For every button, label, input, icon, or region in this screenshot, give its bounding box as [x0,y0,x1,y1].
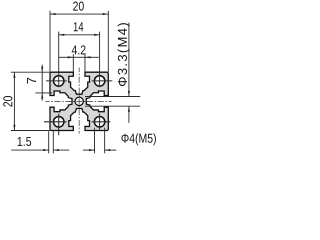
corner hole bottom-left [53,117,64,128]
crosshair bottom-left hole horizontal [44,121,67,123]
corner hole top-left [53,76,64,87]
dim 4.2 extension line right [84,54,86,72]
dim 4.2 dimension line [73,56,85,58]
corner hole top-right [94,76,105,87]
dim 20 top dimension line [50,13,108,15]
dim 20 left extension line bottom [11,130,50,132]
dim 1.5 extension line left [48,131,50,153]
dim 1.5 label [18,137,32,146]
dim 7 label [27,78,36,84]
dim 7 dimension line [41,65,43,101]
dim 14 label [74,22,84,31]
dim 14 extension/crosshair left [58,32,60,88]
dim 20 left dimension line [13,72,15,130]
dim 4.2 left outside arrow [59,56,74,58]
crosshair bottom-left hole vertical [58,114,60,136]
dim 20 left extension line top [11,71,50,73]
dim 20 left label [3,96,12,107]
profile body 20x20 extrusion cross-section [50,72,108,130]
dim Phi4(M5) extension line right [104,128,106,154]
dim 7 extension line [35,92,52,94]
crosshair top-left hole [46,80,67,82]
crosshair bottom-right hole horizontal [92,121,111,123]
dim Phi3.3(M4) dimension line with outside arrows [128,23,130,97]
dim 4.2 right outside arrow [85,56,99,58]
dim 14 dimension line [59,34,100,36]
dim Phi3.3(M4) extension line bottom [85,105,140,107]
vertical centerline [78,67,80,133]
dim Phi4(M5) label [121,133,155,145]
dim 20 top label [73,2,84,11]
horizontal centerline [45,100,111,102]
dim 4.2 extension line left [72,54,74,72]
dim Phi4(M5) dimension line with outside arrows [83,149,95,151]
corner hole bottom-right [94,117,105,128]
dim 14 extension/crosshair right [99,32,101,88]
dim Phi4(M5) extension line left [94,128,96,154]
dim 20 top extension line right [107,11,109,72]
dim Phi3.3(M4) label [117,23,129,86]
dim 4.2 label [72,45,86,54]
dim Phi3.3(M4) extension line top [85,96,140,98]
crosshair bottom-right hole vertical [99,114,101,130]
crosshair top-right hole [92,80,113,82]
dim 1.5 extension line right [52,131,54,153]
dim 20 top extension line left [49,11,51,72]
center hole [75,97,83,105]
dim 1.5 dimension line with outside arrows [11,149,49,151]
